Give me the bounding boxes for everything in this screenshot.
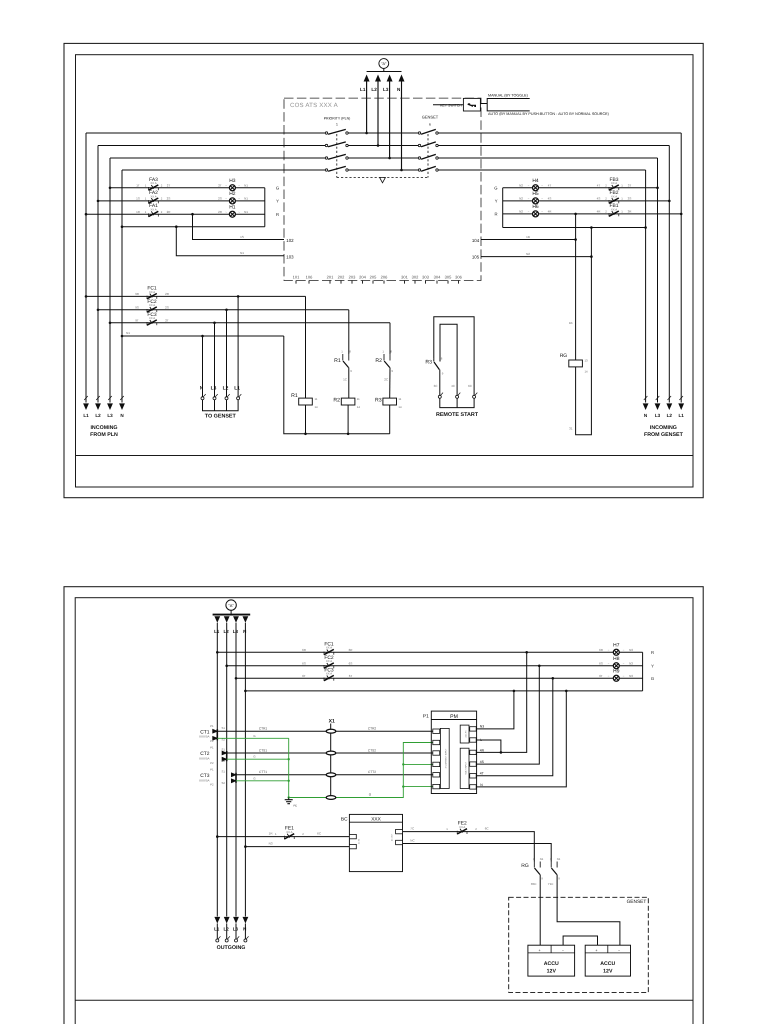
contactor K1 PRIORITY PLN xyxy=(324,117,351,178)
svg-text:COS ATS XXX A: COS ATS XXX A xyxy=(290,102,339,109)
svg-text:Y1C: Y1C xyxy=(548,882,554,886)
svg-text:P1: P1 xyxy=(423,713,429,719)
svg-text:N2: N2 xyxy=(519,210,523,214)
svg-text:XX A: XX A xyxy=(611,194,617,198)
junction xyxy=(97,200,100,203)
wire row L2 left xyxy=(98,145,325,147)
svg-text:6T: 6T xyxy=(302,674,306,678)
wire row L2 mid xyxy=(348,145,418,147)
PM current input box xyxy=(440,728,449,788)
svg-text:8: 8 xyxy=(349,350,351,354)
svg-text:S1: S1 xyxy=(222,770,226,774)
wire to-genset L3 xyxy=(214,323,216,397)
svg-text:105: 105 xyxy=(472,254,480,259)
wire CT2 S2 secondary green xyxy=(227,758,289,760)
svg-text:31: 31 xyxy=(569,427,573,431)
junction to genset feed xyxy=(225,309,228,312)
wire PM L aux line xyxy=(476,740,501,752)
block COS ATS enclosure (dashed) xyxy=(284,98,481,280)
svg-text:XX A: XX A xyxy=(150,181,156,185)
svg-text:INCOMING: INCOMING xyxy=(90,425,117,431)
arrow incoming PLN N xyxy=(119,403,125,410)
wire outgoing L1 tail xyxy=(216,924,218,940)
svg-text:ACCU: ACCU xyxy=(600,961,615,967)
svg-text:R3: R3 xyxy=(375,398,382,404)
contact RG 2 xyxy=(551,862,557,875)
svg-text:N: N xyxy=(644,413,648,418)
wire lamp row Y xyxy=(98,200,265,202)
svg-text:H1: H1 xyxy=(229,204,236,210)
arrow metering tap L2 xyxy=(375,75,381,82)
svg-text:9: 9 xyxy=(350,369,352,373)
svg-text:R2: R2 xyxy=(375,358,382,364)
fuse FB3 xyxy=(609,185,619,191)
svg-text:1: 1 xyxy=(621,197,623,201)
svg-text:N1: N1 xyxy=(126,331,130,335)
svg-text:104: 104 xyxy=(472,238,480,243)
fuse FC2 xyxy=(147,307,157,313)
svg-text:9: 9 xyxy=(391,369,393,373)
junction xyxy=(400,169,403,172)
svg-text:~: ~ xyxy=(541,184,543,188)
svg-text:6C: 6C xyxy=(317,832,322,836)
svg-text:N3: N3 xyxy=(269,842,273,846)
svg-text:NC: NC xyxy=(410,839,415,843)
svg-text:N3: N3 xyxy=(629,661,633,665)
wire incoming PLN L2 vertical xyxy=(97,146,99,403)
page 2 title block line xyxy=(75,999,693,1001)
fuse FC3 xyxy=(147,320,157,326)
svg-text:304: 304 xyxy=(434,275,441,280)
svg-text:G: G xyxy=(651,676,654,681)
arrow feeder L1 xyxy=(214,616,220,623)
ground PE xyxy=(285,798,293,804)
BC output terminals xyxy=(391,829,403,844)
svg-text:FROM GENSET: FROM GENSET xyxy=(644,432,684,438)
wire outgoing L3 tail xyxy=(235,924,237,940)
junction xyxy=(244,845,247,848)
svg-text:1: 1 xyxy=(382,350,384,354)
wire PM N3 aux neutral xyxy=(476,691,514,729)
svg-text:2S: 2S xyxy=(218,197,222,201)
wire CT2 S1 secondary xyxy=(227,752,433,754)
svg-text:KEY SWITCH: KEY SWITCH xyxy=(440,103,462,107)
svg-text:14: 14 xyxy=(398,405,402,409)
svg-text:L3: L3 xyxy=(383,87,389,92)
wire lamp row Y xyxy=(227,665,643,667)
svg-text:2R: 2R xyxy=(167,210,172,214)
junction xyxy=(97,309,100,312)
wire FC2 row xyxy=(98,309,349,311)
svg-text:CTS1: CTS1 xyxy=(259,748,267,752)
svg-text:XXX/5A: XXX/5A xyxy=(199,735,210,739)
svg-text:2: 2 xyxy=(302,832,304,836)
svg-text:L2: L2 xyxy=(667,413,673,418)
key switch S1 box xyxy=(463,98,480,111)
svg-text:S2: S2 xyxy=(222,781,226,785)
wire R1 contact to R2 coil xyxy=(348,368,350,399)
junction to genset feed xyxy=(237,295,240,298)
svg-text:~: ~ xyxy=(528,184,530,188)
svg-text:XX A: XX A xyxy=(459,825,465,829)
svg-text:3R: 3R xyxy=(628,210,633,214)
svg-text:1C: 1C xyxy=(343,378,348,382)
svg-text:14: 14 xyxy=(315,405,319,409)
junction xyxy=(288,758,290,760)
svg-text:1B: 1B xyxy=(569,321,573,325)
svg-text:~: ~ xyxy=(225,197,227,201)
svg-text:206: 206 xyxy=(381,275,388,280)
svg-text:P1: P1 xyxy=(210,768,214,772)
arrow outgoing N xyxy=(243,917,249,924)
wire RG coil return xyxy=(576,227,592,435)
svg-text:8: 8 xyxy=(441,357,443,361)
junction xyxy=(644,226,647,229)
wire row L1 left xyxy=(86,132,325,134)
junction xyxy=(225,665,228,668)
svg-text:N1: N1 xyxy=(244,210,248,214)
terminal slash L1 xyxy=(679,396,683,400)
wire remote start outer loop xyxy=(434,317,474,396)
svg-text:6: 6 xyxy=(429,123,431,127)
arrow feeder L3 xyxy=(233,616,239,623)
svg-text:203: 203 xyxy=(349,275,356,280)
svg-text:H7: H7 xyxy=(613,643,620,649)
svg-text:PRIORITY (PLN): PRIORITY (PLN) xyxy=(324,117,351,121)
svg-text:R3: R3 xyxy=(425,359,432,365)
svg-text:~: ~ xyxy=(623,662,625,666)
svg-text:XX A: XX A xyxy=(326,659,332,663)
svg-text:305: 305 xyxy=(445,275,452,280)
junction xyxy=(590,255,593,258)
wire neutral row xyxy=(245,690,642,692)
wire row N left xyxy=(122,169,325,171)
svg-text:H8: H8 xyxy=(613,656,620,662)
svg-text:102: 102 xyxy=(286,238,294,243)
junction xyxy=(377,144,380,147)
svg-text:OUTGOING: OUTGOING xyxy=(217,945,246,951)
junction xyxy=(109,322,112,325)
wire RG1 to battery plus xyxy=(539,875,541,946)
svg-text:L1: L1 xyxy=(83,413,89,418)
svg-text:N3: N3 xyxy=(629,674,633,678)
svg-text:2T: 2T xyxy=(165,318,169,322)
svg-text:1T: 1T xyxy=(136,183,140,187)
arrow outgoing L2 xyxy=(224,917,230,924)
svg-text:6T: 6T xyxy=(349,674,353,678)
svg-text:L3: L3 xyxy=(107,413,113,418)
wire R3 coil to bus xyxy=(389,405,391,434)
node N1 control row xyxy=(122,335,284,337)
svg-text:1R: 1R xyxy=(136,210,141,214)
arrow metering tap L1 xyxy=(364,75,370,82)
svg-text:101: 101 xyxy=(293,275,300,280)
svg-text:N1: N1 xyxy=(244,183,248,187)
svg-text:L1: L1 xyxy=(679,413,685,418)
svg-text:S2: S2 xyxy=(222,759,226,763)
svg-text:1: 1 xyxy=(446,827,448,831)
charger BC block xyxy=(349,814,402,871)
svg-text:14: 14 xyxy=(357,405,361,409)
terminal strip X1 xyxy=(329,718,335,799)
svg-text:6S: 6S xyxy=(349,661,353,665)
wire row L3 right xyxy=(438,157,657,159)
svg-text:202: 202 xyxy=(338,275,345,280)
svg-text:2T: 2T xyxy=(167,183,171,187)
wire lamp row R xyxy=(86,213,265,215)
svg-text:L2: L2 xyxy=(223,927,229,932)
terminal slash L1 xyxy=(84,396,88,400)
svg-text:H6: H6 xyxy=(532,204,539,210)
svg-text:N3: N3 xyxy=(480,725,484,729)
relay coil RG xyxy=(569,360,583,367)
svg-text:R: R xyxy=(651,650,654,655)
junction xyxy=(365,132,368,135)
wire metering bus xyxy=(367,71,402,73)
terminal slash L3 xyxy=(108,396,112,400)
wire feeder L1 column xyxy=(216,623,218,917)
meter PM block xyxy=(431,711,476,793)
wire incoming PLN L1 vertical xyxy=(85,133,87,403)
arrow metering tap L3 xyxy=(387,75,393,82)
svg-text:~: ~ xyxy=(528,197,530,201)
svg-text:6R: 6R xyxy=(302,648,307,652)
svg-text:R: R xyxy=(276,212,279,217)
wire battery series link xyxy=(563,936,597,945)
svg-text:G: G xyxy=(253,776,255,780)
svg-text:1: 1 xyxy=(621,184,623,188)
terminal X1-2 xyxy=(326,751,336,755)
svg-text:REMOTE START: REMOTE START xyxy=(436,412,479,418)
svg-text:PE: PE xyxy=(294,805,298,808)
svg-text:XX A: XX A xyxy=(611,181,617,185)
junction xyxy=(574,238,577,241)
fuse FC1 xyxy=(147,294,157,300)
svg-text:2R: 2R xyxy=(218,210,223,214)
svg-text:N: N xyxy=(120,413,124,418)
terminal X1-1 xyxy=(326,729,336,733)
fuse FB2 xyxy=(609,198,619,204)
svg-text:9T: 9T xyxy=(135,318,139,322)
junction xyxy=(216,835,219,838)
junction xyxy=(175,225,178,228)
terminal slash L2 xyxy=(668,396,672,400)
page 2 border frame xyxy=(64,587,703,1024)
svg-text:AUTO (BY MANUAL BY PUSH-BUTTON: AUTO (BY MANUAL BY PUSH-BUTTON - AUTO BY… xyxy=(488,112,609,116)
arrow incoming GENSET L1 xyxy=(678,403,684,410)
terminal outgoing L1 xyxy=(216,936,221,942)
svg-text:N2: N2 xyxy=(526,252,530,256)
arrow incoming GENSET L2 xyxy=(666,403,672,410)
svg-text:N: N xyxy=(243,629,246,634)
PM aux supply box xyxy=(460,725,469,743)
wire incoming PLN N vertical xyxy=(121,170,123,403)
svg-text:N: N xyxy=(397,87,401,92)
wire PM 4S volt input xyxy=(476,666,539,764)
fuse FA1 xyxy=(149,211,159,217)
svg-text:+: + xyxy=(595,948,597,952)
battery GB1 ACCU 12V xyxy=(528,945,575,976)
wire outgoing L2 tail xyxy=(226,924,228,940)
svg-text:XXX/5A: XXX/5A xyxy=(199,778,210,782)
svg-text:CTS2: CTS2 xyxy=(368,748,376,752)
svg-text:H2: H2 xyxy=(229,191,236,197)
wire CT1 S1 secondary xyxy=(217,730,432,732)
svg-text:8: 8 xyxy=(390,350,392,354)
svg-text:4T: 4T xyxy=(597,183,601,187)
arrow feeder L2 xyxy=(224,616,230,623)
svg-text:"A": "A" xyxy=(381,62,387,66)
wire to-genset bracket xyxy=(203,400,239,411)
svg-text:H4: H4 xyxy=(532,178,539,184)
fuse FC3 xyxy=(324,675,334,681)
svg-text:6C: 6C xyxy=(468,384,473,388)
svg-text:2: 2 xyxy=(605,197,607,201)
svg-text:2S: 2S xyxy=(167,197,171,201)
arrow incoming PLN L3 xyxy=(107,403,113,410)
svg-text:"A": "A" xyxy=(228,603,234,608)
wire FC2 feed to R1 contact xyxy=(348,310,350,354)
svg-text:XX A: XX A xyxy=(149,303,155,307)
wire lamp return bus vertical xyxy=(264,188,266,227)
svg-text:CTR1: CTR1 xyxy=(259,727,268,731)
junction xyxy=(121,225,124,228)
svg-text:4R: 4R xyxy=(480,748,485,752)
wire row L3 left xyxy=(110,157,325,159)
svg-text:106: 106 xyxy=(306,275,313,280)
junction xyxy=(191,213,194,216)
wire genset lamp bus bottom xyxy=(503,227,646,229)
wire L1 to FE1 xyxy=(217,836,349,838)
svg-text:L2: L2 xyxy=(371,87,377,92)
arrow incoming GENSET L3 xyxy=(655,403,661,410)
terminal outgoing L3 xyxy=(235,936,240,942)
svg-text:205: 205 xyxy=(370,275,377,280)
wire R2 coil to bus xyxy=(347,405,349,434)
svg-text:H3: H3 xyxy=(229,178,236,184)
genset enclosure dashed box xyxy=(509,897,649,992)
svg-text:6R: 6R xyxy=(599,648,604,652)
svg-text:XXX: XXX xyxy=(371,817,381,823)
svg-text:2: 2 xyxy=(161,184,163,188)
svg-text:4T: 4T xyxy=(480,772,484,776)
svg-text:INCOMING: INCOMING xyxy=(650,425,677,431)
svg-text:9: 9 xyxy=(558,877,560,881)
svg-text:N: N xyxy=(243,927,246,932)
svg-text:DC OUT: DC OUT xyxy=(391,833,394,841)
svg-text:N2: N2 xyxy=(519,197,523,201)
wire key switch bracket xyxy=(480,103,487,105)
wire remote start inner loop xyxy=(440,324,457,395)
junction xyxy=(525,651,528,654)
svg-text:303: 303 xyxy=(422,275,429,280)
meter A1 ammeter circle xyxy=(379,59,389,69)
svg-text:301: 301 xyxy=(401,275,408,280)
arrow feeder N xyxy=(243,616,249,623)
svg-text:XX A: XX A xyxy=(286,830,292,834)
svg-text:1: 1 xyxy=(336,123,338,127)
svg-text:1: 1 xyxy=(145,184,147,188)
arrow incoming PLN L2 xyxy=(95,403,101,410)
terminal remote 3 xyxy=(473,393,478,399)
svg-text:6R: 6R xyxy=(349,648,354,652)
node 1S wire to terminal 102 xyxy=(193,214,285,239)
svg-text:P2: P2 xyxy=(210,761,214,765)
terminal remote 2 xyxy=(456,393,461,399)
svg-text:204: 204 xyxy=(359,275,366,280)
junction xyxy=(235,677,238,680)
junction xyxy=(388,157,391,160)
svg-text:N2: N2 xyxy=(519,183,523,187)
svg-text:14: 14 xyxy=(585,370,589,374)
svg-text:12V: 12V xyxy=(603,969,613,975)
junction xyxy=(288,780,290,782)
wire feeder L2 column xyxy=(226,623,228,917)
svg-text:~: ~ xyxy=(608,674,610,678)
wire PM 4R volt input xyxy=(476,652,527,752)
svg-text:6S: 6S xyxy=(599,661,603,665)
arrow metering tap N xyxy=(399,75,405,82)
svg-text:P2: P2 xyxy=(210,739,214,743)
node N1 wire to terminal 103 xyxy=(176,227,284,256)
svg-text:4S: 4S xyxy=(597,197,601,201)
svg-text:3 CURRENT INPUT: 3 CURRENT INPUT xyxy=(445,748,448,768)
svg-text:P1: P1 xyxy=(210,724,214,728)
terminal slash N xyxy=(644,396,648,400)
junction xyxy=(656,187,659,190)
svg-text:1: 1 xyxy=(341,350,343,354)
svg-text:G: G xyxy=(369,793,372,797)
svg-text:N3: N3 xyxy=(629,648,633,652)
wire to-genset L1 xyxy=(237,296,239,396)
wire RG2 to battery minus xyxy=(557,875,620,946)
svg-text:S1: S1 xyxy=(222,726,226,730)
mechanical interlock dashed link xyxy=(337,178,428,183)
wire incoming GENSET L3 vertical xyxy=(657,158,659,403)
svg-text:N1: N1 xyxy=(557,857,561,861)
svg-text:XX A: XX A xyxy=(149,316,155,320)
contact R1 aux xyxy=(343,354,349,368)
wire genset lamp row Y xyxy=(503,200,670,202)
arrow incoming GENSET N xyxy=(643,403,649,410)
wire lamp row G xyxy=(110,187,265,189)
junction xyxy=(109,187,112,190)
relay RG feed wire xyxy=(575,214,577,360)
wire PM 4T volt input xyxy=(476,678,553,776)
svg-text:~: ~ xyxy=(541,210,543,214)
svg-text:RG: RG xyxy=(521,863,529,869)
svg-text:VOLT INPUT: VOLT INPUT xyxy=(464,761,467,774)
svg-text:N: N xyxy=(480,783,483,787)
svg-text:L2: L2 xyxy=(223,385,229,391)
contact R3 xyxy=(434,362,439,370)
svg-text:GENSET: GENSET xyxy=(422,115,439,120)
wire to-genset N xyxy=(202,336,204,397)
svg-text:~: ~ xyxy=(608,648,610,652)
svg-text:2C: 2C xyxy=(384,378,389,382)
svg-text:1: 1 xyxy=(275,832,277,836)
svg-text:N: N xyxy=(200,385,204,391)
svg-text:R: R xyxy=(494,212,497,217)
wire row L3 mid xyxy=(348,157,418,159)
block terminal stubs and numbers xyxy=(293,275,463,284)
svg-text:TO GENSET: TO GENSET xyxy=(205,413,237,419)
svg-text:XX A: XX A xyxy=(326,672,332,676)
wire green G run to meter xyxy=(289,743,433,798)
svg-text:GENSET: GENSET xyxy=(627,899,647,905)
svg-text:4C: 4C xyxy=(451,384,456,388)
wire ammeter stem xyxy=(230,610,232,614)
